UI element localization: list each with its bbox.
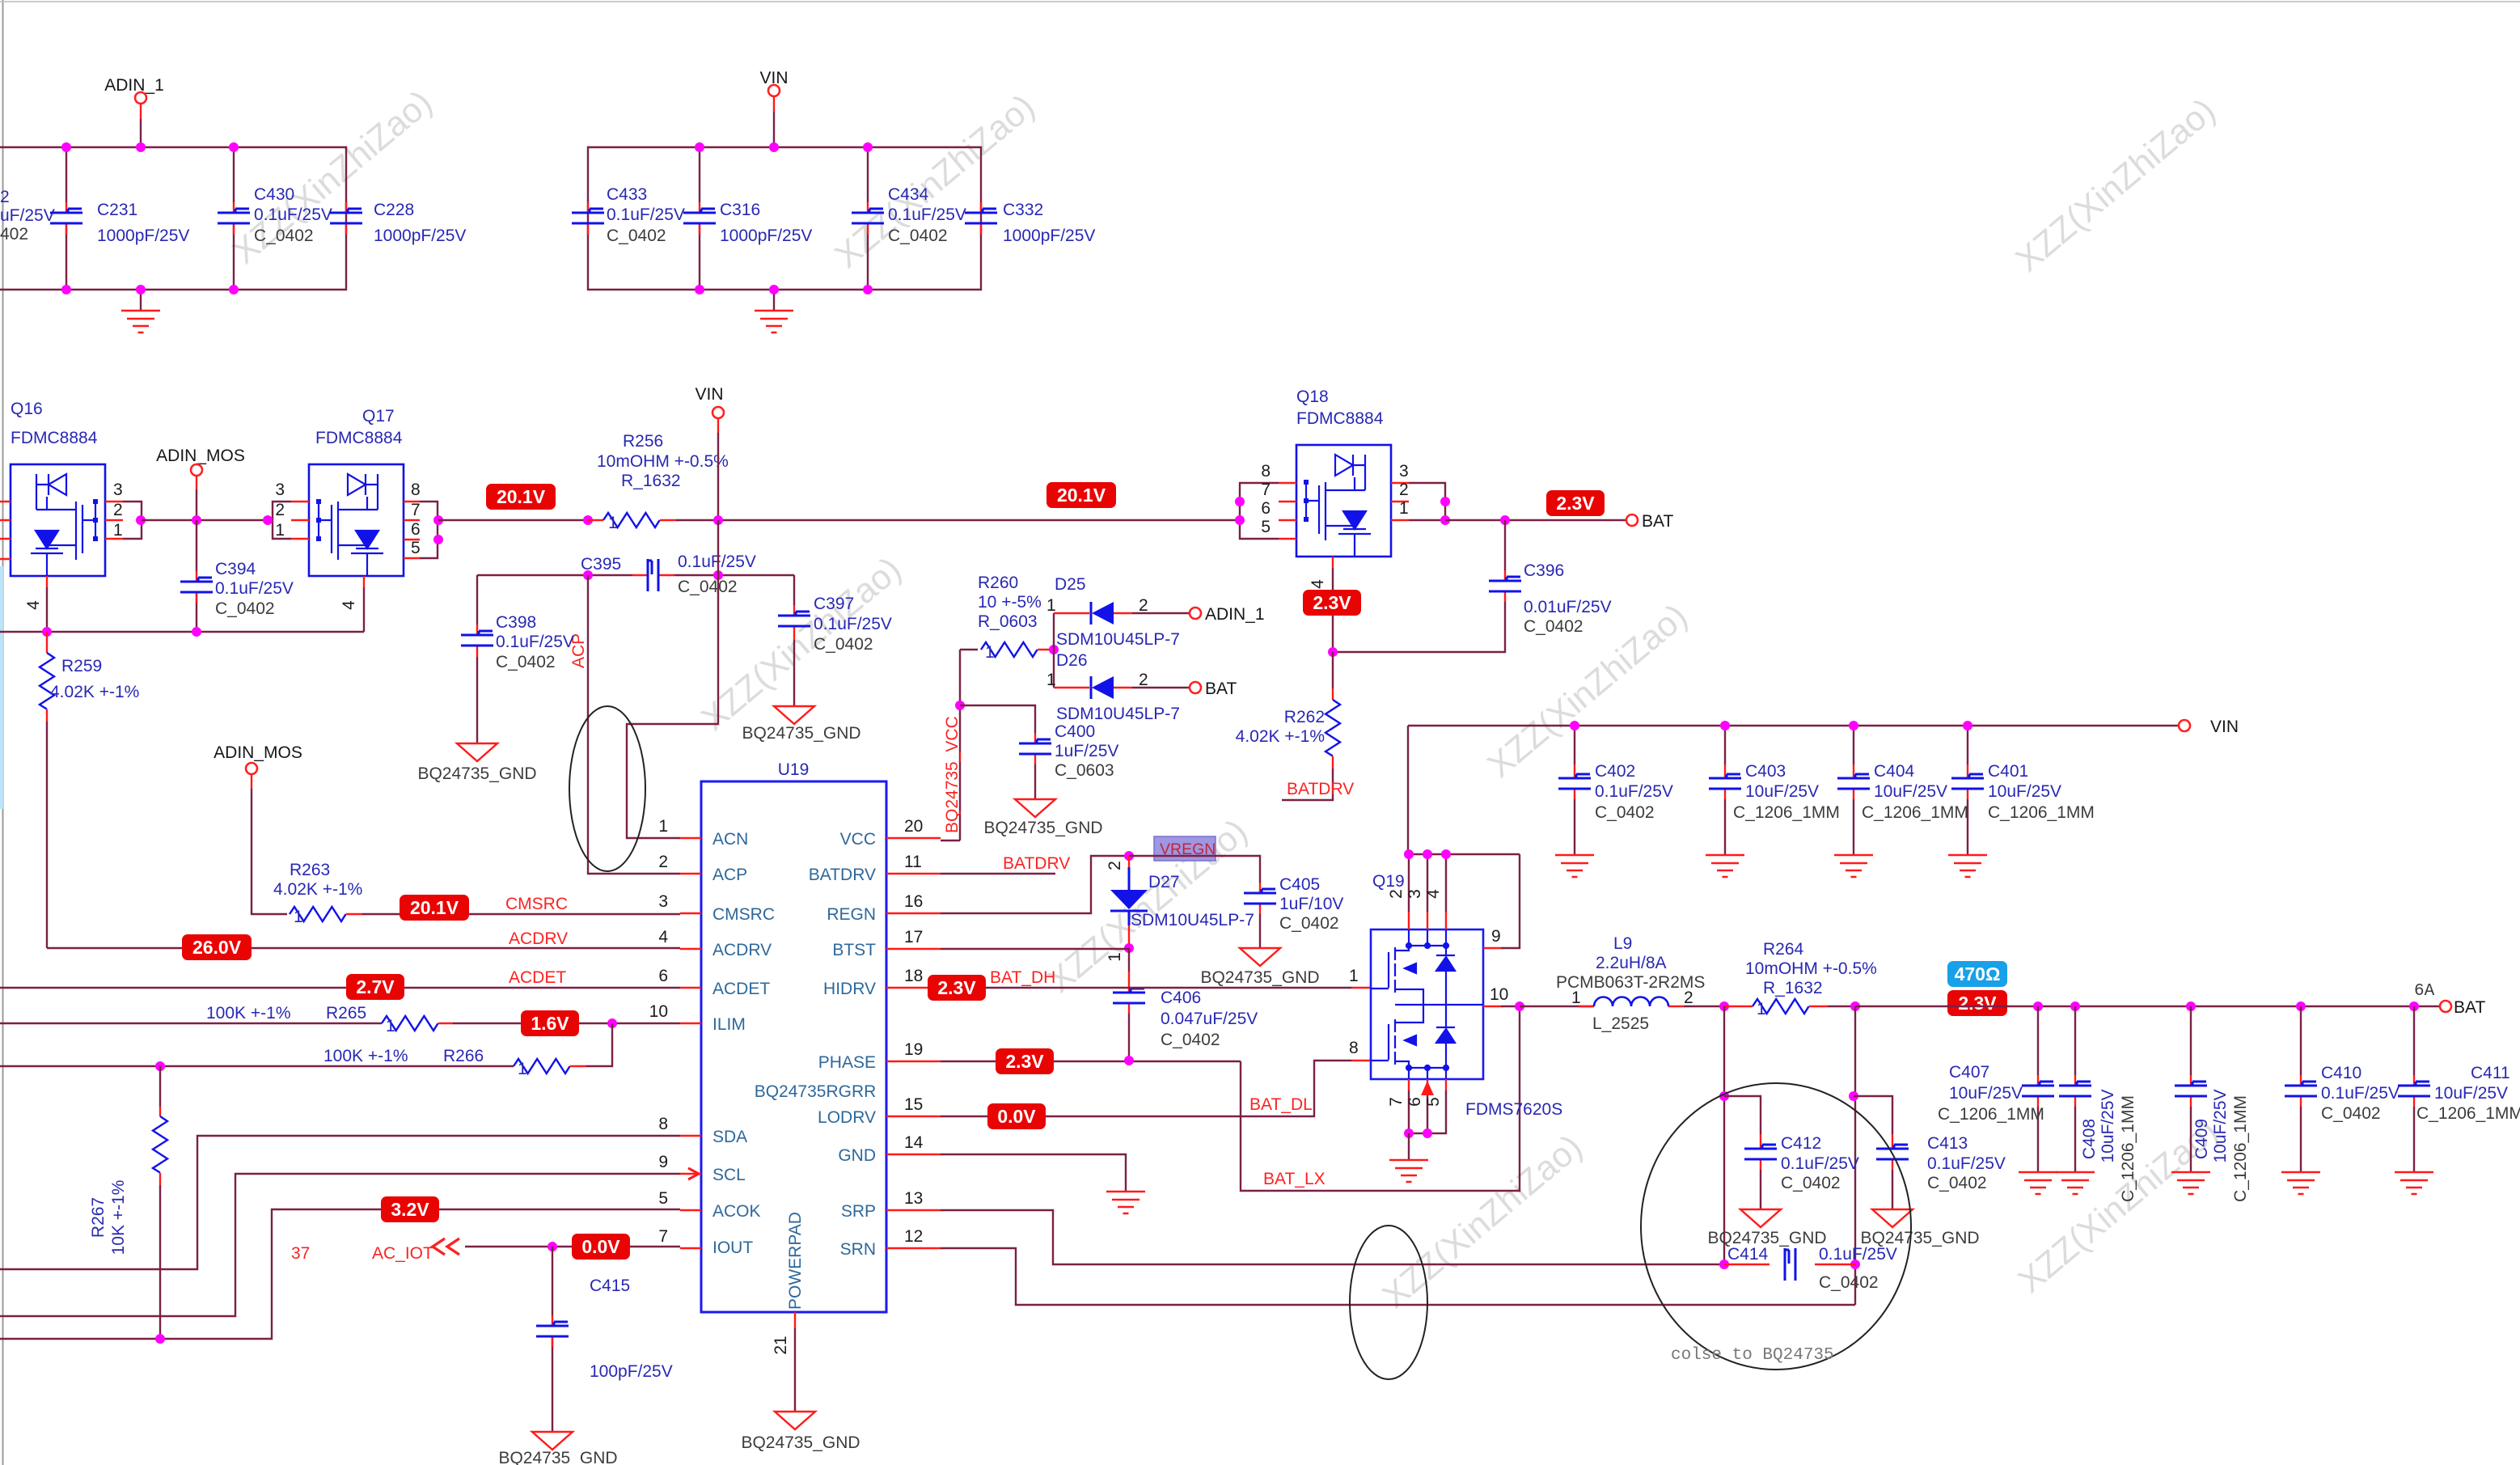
svg-text:5: 5	[1261, 518, 1271, 536]
svg-text:8: 8	[1261, 462, 1271, 481]
svg-text:C228: C228	[374, 201, 414, 219]
svg-text:BAT_LX: BAT_LX	[1263, 1170, 1326, 1188]
svg-text:0.1uF/25V: 0.1uF/25V	[496, 633, 574, 651]
port BAT (Q18 output)	[1626, 512, 1673, 531]
ground (earth) C410	[2281, 1172, 2320, 1194]
wire ACDRV	[47, 929, 680, 948]
svg-text:HIDRV: HIDRV	[823, 980, 876, 998]
ground (earth) Q19 source	[1389, 1133, 1428, 1182]
svg-text:colse to BQ24735: colse to BQ24735	[1671, 1346, 1834, 1365]
svg-text:3.2V: 3.2V	[391, 1199, 429, 1220]
wire REGN to VREGN	[941, 851, 1134, 913]
svg-text:1: 1	[1571, 989, 1581, 1007]
wire CMSRC	[362, 895, 680, 914]
svg-text:C394: C394	[215, 560, 256, 578]
capacitor C409	[2175, 1006, 2250, 1202]
svg-text:VIN: VIN	[695, 385, 723, 404]
wire BAT_LX	[1241, 1006, 1520, 1191]
svg-text:C430: C430	[254, 185, 294, 204]
svg-text:C316: C316	[720, 201, 760, 219]
port VIN (right)	[2179, 718, 2239, 736]
ground (earth) C409	[2171, 1172, 2210, 1194]
resistance badge 470Ω	[1947, 961, 2007, 987]
svg-text:4: 4	[340, 600, 358, 610]
svg-text:BATDRV: BATDRV	[1003, 854, 1070, 873]
svg-text:BQ24735RGRR: BQ24735RGRR	[755, 1082, 877, 1101]
svg-text:20: 20	[904, 817, 923, 836]
svg-text:10mOHM +-0.5%: 10mOHM +-0.5%	[597, 452, 729, 471]
svg-text:XZZ(XinZhiZao): XZZ(XinZhiZao)	[1480, 597, 1694, 785]
circle highlight (close to BQ24735)	[1641, 1083, 1911, 1370]
svg-text:FDMS7620S: FDMS7620S	[1465, 1100, 1562, 1119]
voltage badge 2.3V (HIDRV)	[928, 975, 986, 1001]
svg-text:26.0V: 26.0V	[192, 937, 242, 958]
svg-text:ACN: ACN	[712, 830, 748, 849]
ground BQ24735_GND pin21	[741, 1412, 860, 1452]
svg-text:Q19: Q19	[1372, 872, 1405, 891]
ground (earth) C402	[1555, 855, 1594, 877]
svg-text:CMSRC: CMSRC	[505, 895, 568, 913]
svg-text:C_0402: C_0402	[1819, 1273, 1879, 1292]
svg-text:0.1uF/25V: 0.1uF/25V	[1927, 1154, 2006, 1173]
svg-text:R265: R265	[326, 1004, 366, 1023]
svg-text:XZZ(XinZhiZao): XZZ(XinZhiZao)	[827, 87, 1042, 276]
ground (earth) VIN bank	[755, 290, 793, 332]
svg-text:C406: C406	[1161, 989, 1201, 1007]
wire C395 net	[477, 570, 794, 580]
net label VREGN (highlighted)	[1154, 836, 1216, 861]
svg-text:BAT: BAT	[1205, 680, 1237, 698]
svg-text:XZZ(XinZhiZao): XZZ(XinZhiZao)	[1375, 1128, 1589, 1316]
wire R259 to ACDRV	[46, 722, 48, 948]
svg-text:REGN: REGN	[827, 905, 876, 924]
svg-text:2: 2	[658, 853, 668, 871]
capacitor C394	[180, 520, 294, 632]
svg-text:1000pF/25V: 1000pF/25V	[1003, 227, 1095, 245]
voltage badge 20.1V (right)	[1046, 482, 1116, 508]
svg-text:20.1V: 20.1V	[1057, 485, 1106, 506]
capacitor C231	[50, 147, 189, 290]
svg-text:C405: C405	[1279, 875, 1320, 894]
wire GND pin14	[941, 1154, 1126, 1192]
resistor R259	[40, 632, 139, 722]
svg-text:BAT_DL: BAT_DL	[1249, 1095, 1313, 1114]
svg-text:402: 402	[0, 225, 28, 243]
svg-text:C_0402: C_0402	[1595, 803, 1655, 822]
capacitor C228	[330, 201, 466, 245]
svg-text:1: 1	[1046, 671, 1056, 689]
svg-text:SRP: SRP	[841, 1202, 876, 1221]
svg-text:BAT: BAT	[1642, 512, 1673, 531]
capacitor C430	[218, 147, 332, 290]
svg-text:10K +-1%: 10K +-1%	[109, 1180, 128, 1255]
wire rail Q18 to BAT port	[1445, 515, 1626, 525]
svg-text:SDM10U45LP-7: SDM10U45LP-7	[1056, 630, 1180, 649]
svg-text:10uF/25V: 10uF/25V	[1949, 1084, 2023, 1103]
U19 right pin stubs	[886, 817, 941, 1248]
svg-text:6: 6	[658, 967, 668, 985]
svg-text:SCL: SCL	[712, 1166, 746, 1184]
svg-text:1: 1	[518, 1060, 527, 1078]
svg-text:2: 2	[1399, 481, 1409, 499]
capacitor C407	[1938, 1006, 2054, 1172]
port VIN top	[759, 69, 788, 147]
svg-text:4.02K +-1%: 4.02K +-1%	[1236, 727, 1325, 746]
svg-text:R_1632: R_1632	[1763, 979, 1823, 997]
svg-text:6: 6	[411, 520, 421, 539]
svg-text:10uF/25V: 10uF/25V	[2211, 1089, 2230, 1162]
svg-text:L9: L9	[1613, 934, 1632, 953]
svg-text:7: 7	[1387, 1097, 1406, 1107]
svg-text:ACDRV: ACDRV	[509, 929, 568, 948]
voltage badge 20.1V (CMSRC)	[400, 895, 469, 921]
ground BQ24735_GND under C398	[417, 743, 536, 783]
svg-text:BTST: BTST	[832, 941, 876, 959]
svg-text:C_0402: C_0402	[1927, 1174, 1987, 1192]
svg-text:1: 1	[1046, 596, 1056, 615]
svg-text:C_1206_1MM: C_1206_1MM	[2231, 1095, 2250, 1202]
ground BQ24735_GND under C397	[742, 706, 860, 743]
svg-text:C434: C434	[888, 185, 929, 204]
svg-text:C414: C414	[1727, 1245, 1769, 1264]
svg-text:uF/25V: uF/25V	[0, 206, 55, 225]
svg-text:LODRV: LODRV	[818, 1108, 876, 1127]
ground (earth) C408	[2056, 1172, 2095, 1194]
wire VCC from pin20	[941, 650, 978, 840]
wire BATDRV (R262)	[1282, 768, 1354, 800]
svg-text:1000pF/25V: 1000pF/25V	[374, 227, 466, 245]
svg-text:1000pF/25V: 1000pF/25V	[97, 227, 189, 245]
svg-text:3: 3	[1406, 889, 1424, 899]
svg-text:11: 11	[904, 853, 922, 871]
svg-text:4.02K +-1%: 4.02K +-1%	[273, 880, 362, 899]
svg-text:C395: C395	[581, 555, 621, 574]
svg-text:ADIN_1: ADIN_1	[1205, 605, 1265, 624]
voltage badge 2.7V	[346, 974, 404, 1000]
capacitor C408	[2059, 1006, 2137, 1202]
resistor R267	[89, 1066, 167, 1339]
svg-text:ILIM: ILIM	[712, 1015, 746, 1034]
svg-text:L_2525: L_2525	[1592, 1014, 1649, 1033]
svg-text:SDA: SDA	[712, 1128, 747, 1146]
ground BQ24735_GND under C405	[1200, 948, 1319, 987]
capacitor C410	[2285, 1006, 2399, 1172]
capacitor C332	[965, 201, 1095, 245]
svg-text:C397: C397	[814, 595, 854, 613]
svg-text:9: 9	[658, 1153, 668, 1171]
svg-text:C231: C231	[97, 201, 137, 219]
wire Q16 to Q17 (rail at 643)	[142, 519, 267, 521]
ground (earth) C411	[2395, 1172, 2433, 1194]
wire VIN bank box	[588, 147, 981, 290]
port BAT (D26)	[1190, 680, 1237, 698]
svg-text:BQ24735_GND: BQ24735_GND	[498, 1449, 617, 1465]
svg-text:10uF/25V: 10uF/25V	[2434, 1084, 2508, 1103]
wire diode anode bus	[1053, 613, 1055, 688]
ground BQ24735_GND under C400	[983, 799, 1102, 837]
svg-text:C404: C404	[1874, 762, 1915, 781]
svg-text:C415: C415	[590, 1277, 630, 1295]
svg-text:C_1206_1MM: C_1206_1MM	[1862, 803, 1968, 822]
svg-text:1: 1	[1757, 1000, 1766, 1018]
svg-text:ACDET: ACDET	[712, 980, 770, 998]
svg-text:1: 1	[658, 817, 668, 836]
svg-text:BQ24735_GND: BQ24735_GND	[741, 1433, 860, 1452]
svg-text:C403: C403	[1745, 762, 1786, 781]
transistor Q17	[263, 407, 443, 632]
svg-text:4.02K +-1%: 4.02K +-1%	[50, 683, 139, 701]
svg-text:R267: R267	[89, 1197, 108, 1238]
voltage badge 2.3V (PHASE)	[996, 1048, 1054, 1074]
svg-text:8: 8	[1349, 1039, 1359, 1057]
svg-text:2.3V: 2.3V	[1005, 1051, 1044, 1072]
wire SRN branch vertical	[1849, 1006, 1860, 1305]
svg-text:C402: C402	[1595, 762, 1635, 781]
wire BTST	[941, 948, 1129, 949]
svg-text:10: 10	[649, 1002, 668, 1021]
svg-text:BAT_DH: BAT_DH	[990, 968, 1055, 987]
transistor Q19	[1349, 854, 1562, 1138]
wire SRP	[941, 1210, 1724, 1264]
svg-text:C332: C332	[1003, 201, 1043, 219]
Q19 pin 9	[1483, 947, 1501, 949]
capacitor C401	[1951, 721, 2095, 855]
op-amp U19 IC body	[701, 760, 886, 1312]
svg-text:10uF/25V: 10uF/25V	[1874, 782, 1947, 801]
svg-text:9: 9	[1491, 927, 1501, 946]
svg-text:2: 2	[275, 501, 285, 519]
capacitor C402	[1558, 721, 1673, 855]
svg-text:IOUT: IOUT	[712, 1238, 753, 1257]
svg-text:1: 1	[386, 1017, 395, 1035]
svg-text:17: 17	[904, 928, 923, 946]
svg-text:1: 1	[1106, 952, 1124, 962]
svg-text:C_0402: C_0402	[2321, 1104, 2381, 1123]
svg-text:BATDRV: BATDRV	[809, 866, 876, 884]
svg-text:C_1206_1MM: C_1206_1MM	[2119, 1095, 2137, 1202]
svg-text:1000pF/25V: 1000pF/25V	[720, 227, 812, 245]
junction dots ADIN_1 bank	[61, 142, 239, 294]
svg-text:5: 5	[1424, 1097, 1443, 1107]
voltage badge 0.0V (IOUT)	[572, 1234, 630, 1260]
svg-text:10uF/25V: 10uF/25V	[2099, 1089, 2117, 1162]
wire top bus ADIN_1 bank	[0, 147, 346, 290]
diode D26	[1046, 651, 1190, 723]
svg-text:1uF/25V: 1uF/25V	[1055, 742, 1118, 760]
svg-text:10uF/25V: 10uF/25V	[1745, 782, 1819, 801]
svg-text:20.1V: 20.1V	[497, 486, 546, 507]
wire rail R256 to Q18	[676, 515, 1240, 525]
wire BAT rail to port	[1855, 1001, 2440, 1011]
svg-text:C_0402: C_0402	[215, 599, 275, 618]
svg-text:VIN: VIN	[2210, 718, 2239, 736]
svg-text:1uF/10V: 1uF/10V	[1279, 895, 1343, 913]
port ADIN_MOS (lower)	[214, 743, 302, 914]
svg-text:470Ω: 470Ω	[1955, 963, 2001, 984]
capacitor C411	[2398, 1006, 2520, 1172]
svg-text:10mOHM +-0.5%: 10mOHM +-0.5%	[1745, 959, 1877, 978]
ground (earth) C403	[1706, 855, 1744, 877]
voltage badge 2.3V (Q18 pin 4)	[1303, 590, 1361, 616]
svg-text:C_0402: C_0402	[814, 635, 873, 654]
svg-text:1.6V: 1.6V	[531, 1013, 569, 1034]
diode D27	[1106, 856, 1254, 962]
svg-text:7: 7	[411, 501, 421, 519]
wire IOUT / AC_IOT	[291, 1238, 680, 1263]
capacitor C403	[1709, 721, 1840, 855]
svg-text:3: 3	[113, 481, 123, 499]
wire lower return (Q16/Q17 pin4)	[0, 627, 364, 637]
svg-text:BAT: BAT	[2454, 998, 2485, 1017]
ground BQ24735_GND under C415	[498, 1432, 617, 1465]
svg-text:0.1uF/25V: 0.1uF/25V	[888, 205, 966, 224]
svg-text:R259: R259	[61, 657, 102, 675]
capacitor C412	[1724, 1096, 1859, 1209]
wire PHASE	[941, 1056, 1241, 1065]
diode D25	[1046, 575, 1190, 649]
svg-text:2.3V: 2.3V	[1556, 493, 1595, 514]
capacitor C395	[581, 553, 756, 596]
svg-text:FDMC8884: FDMC8884	[1296, 409, 1384, 428]
Q19 bottom pins 7,6,5	[1409, 1079, 1446, 1090]
svg-text:C_1206_1MM: C_1206_1MM	[2416, 1104, 2520, 1123]
svg-text:8: 8	[658, 1115, 668, 1133]
svg-text:2: 2	[1139, 596, 1148, 615]
svg-text:5: 5	[411, 539, 421, 557]
svg-text:ADIN_MOS: ADIN_MOS	[214, 743, 302, 762]
svg-text:3: 3	[658, 892, 668, 911]
svg-text:2: 2	[113, 501, 123, 519]
svg-text:C410: C410	[2321, 1064, 2361, 1082]
capacitor C404	[1837, 721, 1968, 855]
svg-text:0.1uF/25V: 0.1uF/25V	[607, 205, 685, 224]
ellipse highlight (ACN/ACP)	[569, 706, 645, 871]
wire ACOK	[0, 1209, 680, 1344]
port ADIN_MOS (upper)	[156, 447, 245, 525]
junction dots VIN bank	[695, 142, 873, 294]
wire SRP branch vertical	[1719, 1006, 1729, 1269]
svg-text:R266: R266	[443, 1047, 484, 1065]
svg-text:2.7V: 2.7V	[356, 976, 395, 997]
svg-text:3: 3	[1399, 462, 1409, 481]
port VIN (rail)	[695, 385, 724, 520]
svg-text:1: 1	[608, 514, 618, 532]
svg-text:0.1uF/25V: 0.1uF/25V	[678, 553, 756, 571]
svg-text:C400: C400	[1055, 722, 1095, 741]
transistor Q18	[1235, 387, 1450, 652]
svg-text:Q18: Q18	[1296, 387, 1329, 406]
svg-text:14: 14	[904, 1133, 924, 1152]
svg-text:Q17: Q17	[362, 407, 395, 426]
wire VIN to ACN path	[627, 520, 718, 838]
capacitor C396	[1328, 520, 1612, 657]
svg-text:20.1V: 20.1V	[410, 897, 459, 918]
svg-text:100K +-1%: 100K +-1%	[323, 1047, 408, 1065]
svg-text:21: 21	[772, 1336, 790, 1354]
svg-text:C411: C411	[2471, 1064, 2510, 1082]
svg-text:C_1206_1MM: C_1206_1MM	[1938, 1105, 2044, 1124]
svg-text:5: 5	[658, 1189, 668, 1208]
svg-text:4: 4	[24, 600, 43, 610]
svg-text:R263: R263	[290, 861, 330, 879]
capacitor C400	[960, 705, 1118, 799]
svg-text:C_0402: C_0402	[1524, 617, 1583, 636]
ground (earth) C404	[1834, 855, 1873, 877]
svg-text:C_0603: C_0603	[1055, 761, 1114, 780]
resistor R266	[0, 1023, 612, 1078]
voltage badge 3.2V	[381, 1196, 439, 1222]
ground BQ24735_GND under C412	[1707, 1209, 1826, 1247]
resistor R262	[1236, 652, 1340, 768]
svg-text:D25: D25	[1055, 575, 1086, 594]
svg-text:C407: C407	[1949, 1063, 1989, 1082]
voltage badge 26.0V	[182, 934, 252, 960]
svg-text:CMSRC: CMSRC	[712, 905, 775, 924]
capacitor C398	[461, 575, 574, 743]
svg-text:C_1206_1MM: C_1206_1MM	[1988, 803, 2095, 822]
svg-text:D26: D26	[1056, 651, 1088, 670]
svg-text:0.0V: 0.0V	[997, 1106, 1036, 1127]
capacitor C415	[536, 1247, 673, 1432]
wire rail Q17 to R256	[438, 515, 593, 525]
Q19 top pins 2,3,4	[1409, 929, 1446, 946]
svg-text:1: 1	[1399, 499, 1409, 518]
svg-text:C413: C413	[1927, 1134, 1968, 1153]
svg-text:BQ24735_GND: BQ24735_GND	[417, 764, 536, 783]
wire HIDRV / BAT_DH	[941, 968, 1371, 988]
svg-text:10: 10	[1490, 985, 1508, 1004]
svg-text:ACP: ACP	[712, 866, 747, 884]
svg-text:4: 4	[658, 928, 668, 946]
svg-text:15: 15	[904, 1095, 923, 1114]
Q19 pin 10	[1483, 1006, 1501, 1007]
svg-text:BQ24735_GND: BQ24735_GND	[983, 819, 1102, 837]
wire SCL	[0, 1174, 680, 1316]
svg-text:2: 2	[1139, 671, 1148, 689]
svg-text:BQ24735_VCC: BQ24735_VCC	[943, 716, 962, 833]
svg-text:10uF/25V: 10uF/25V	[1988, 782, 2061, 801]
ground (earth) C401	[1948, 855, 1987, 877]
resistor R263	[273, 861, 362, 926]
voltage badge 2.3V (BAT)	[1546, 490, 1605, 516]
resistor R264	[1724, 940, 1877, 1018]
svg-text:0.047uF/25V: 0.047uF/25V	[1161, 1010, 1258, 1028]
voltage badge 20.1V (left)	[486, 484, 556, 510]
svg-text:1: 1	[1349, 967, 1359, 985]
capacitor C405	[1244, 875, 1343, 948]
resistor R260	[978, 574, 1059, 662]
wire SRN	[941, 1248, 1855, 1305]
svg-text:12: 12	[904, 1227, 923, 1246]
wire LODRV / BAT_DL	[941, 1061, 1371, 1116]
svg-text:R_1632: R_1632	[621, 472, 681, 490]
ground (earth) pin14	[1106, 1192, 1145, 1213]
svg-text:R256: R256	[623, 432, 663, 451]
svg-text:SDM10U45LP-7: SDM10U45LP-7	[1056, 705, 1180, 723]
voltage badge 2.3V (BAT rail)	[1947, 990, 2007, 1016]
svg-text:C_0402: C_0402	[607, 227, 666, 245]
inductor L9	[1520, 934, 1729, 1033]
svg-text:C409: C409	[2192, 1119, 2211, 1159]
ground (earth) ADIN_1 bank	[121, 290, 160, 332]
port ADIN_1	[104, 76, 164, 147]
svg-text:2: 2	[0, 188, 10, 206]
U19 pin 21 POWERPAD	[772, 1312, 795, 1412]
capacitor C433	[572, 185, 685, 245]
svg-text:D27: D27	[1148, 873, 1180, 891]
port ADIN_1 (right)	[1190, 605, 1265, 624]
svg-text:6: 6	[1406, 1097, 1424, 1107]
